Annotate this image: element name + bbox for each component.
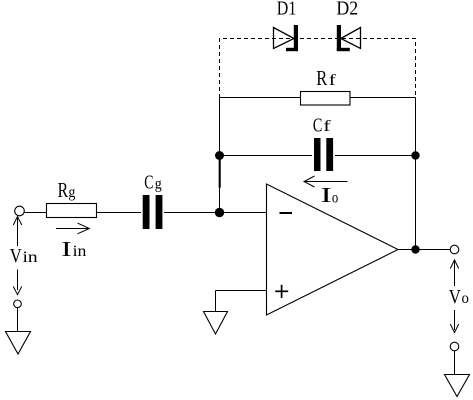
svg-text:in: in [73, 243, 87, 260]
svg-text:R: R [316, 66, 327, 90]
svg-text:R: R [58, 178, 69, 202]
svg-text:D2: D2 [336, 0, 358, 20]
svg-text:C: C [144, 172, 153, 194]
svg-text:V: V [10, 245, 22, 267]
svg-text:g: g [155, 175, 162, 192]
svg-text:I: I [320, 183, 332, 207]
svg-text:g: g [68, 184, 75, 201]
svg-text:f: f [329, 72, 337, 89]
svg-text:o: o [462, 290, 469, 307]
svg-text:D1: D1 [277, 0, 297, 20]
svg-text:V: V [449, 286, 462, 308]
svg-text:o: o [332, 189, 338, 206]
svg-text:f: f [323, 118, 331, 135]
svg-text:I: I [61, 237, 71, 261]
svg-text:C: C [313, 114, 322, 136]
svg-text:in: in [23, 249, 38, 266]
